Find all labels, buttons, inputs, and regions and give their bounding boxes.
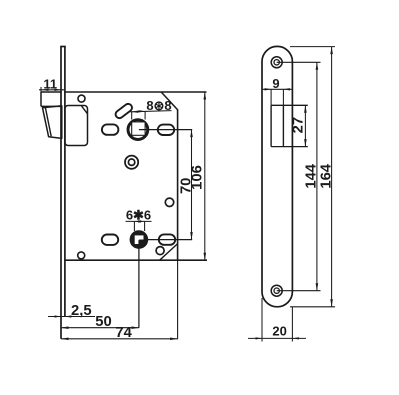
dim 20 ext lines [261,298,263,342]
latch bevel outline [43,106,62,139]
dim 8*8 extension lines [131,111,133,119]
bottom screw hole inner [274,288,279,293]
latch head left edge [40,92,42,106]
dim 20 arrows [256,337,263,339]
dim 8*8 arrows [132,111,139,113]
cylinder hole donut outer [125,156,138,169]
latch body rounded rect [65,106,88,146]
latch head collar line [41,105,61,107]
dim 50 arrows [61,326,69,329]
dim 27 line [304,105,306,146]
svg-text:164: 164 [318,163,334,188]
dim 6*6 extension lines [133,221,135,231]
svg-text:9: 9 [272,76,279,91]
dim 144 arrows [316,62,319,70]
screw hole circle bottom-right [156,247,164,255]
lock case right edge extension to 74 dim [177,260,179,339]
dim 20 line [248,337,306,339]
lower follower square hole [135,235,144,244]
dim 70 arrows [190,130,193,138]
top screw hole outer [271,57,282,68]
lower follower square notch [138,240,143,245]
bottom screw hole outer [271,285,282,296]
faceplate left edge line [60,47,62,339]
screw hole circle top-left [78,95,85,102]
top screw hole inner [274,60,279,65]
dim 164 arrows [330,47,333,55]
svg-text:8⊛8: 8⊛8 [146,98,171,113]
dim 9 line [262,88,292,90]
upper follower square hole [132,122,145,135]
dim 6*6 line [126,220,152,222]
screw hole circle bottom-left [78,252,85,259]
svg-text:106: 106 [190,165,206,190]
dim 106 line [204,92,206,260]
lock case right edge [177,109,179,260]
dim 8*8 line [131,111,172,112]
svg-text:144: 144 [304,163,320,188]
dim 9 ext lines [270,89,272,105]
upper spindle follower ring [128,120,148,140]
svg-text:20: 20 [272,324,286,339]
latch opening left edge [270,105,272,146]
bottom-right diagonal line [160,244,178,260]
upper-left oval slot [102,124,119,134]
latch body corner chamfer line [82,106,88,114]
dim 106 arrows [204,92,207,100]
faceplate right edge line [64,47,66,317]
dim 144 ext line bottom [277,290,321,292]
dim 11 left tick [40,87,42,92]
small circle mid-right [165,198,173,206]
lock case top-right chamfer [161,92,177,110]
dim 11 line [39,89,64,91]
slanted slot (keyhole pill) [114,102,133,119]
dim 9 arrows [265,88,272,90]
latch opening right edge [282,105,284,146]
center line from upper follower [139,129,192,131]
svg-text:27: 27 [291,117,307,133]
dim 164 ext line bottom [290,306,335,308]
dim 74 arrows [61,338,69,341]
lower-right oval slot [159,234,175,244]
latch opening bottom edge + ext [271,146,308,148]
strike plate outline [262,46,292,306]
latch bevel inner line [45,108,51,137]
dim 164 ext line top [290,46,335,48]
latch head top edge [41,91,61,93]
faceplate top cap [60,46,66,48]
cylinder hole donut inner [128,159,134,165]
dim 50 line [61,327,139,329]
lower-left oval slot [102,235,118,245]
dim 6*6 arrows [134,220,141,222]
latch opening top edge + ext [271,104,308,106]
center line down from lower follower [138,248,140,327]
dim 164 line [331,47,333,307]
dim 27 arrows [304,105,307,113]
dim 74 line [61,338,178,340]
dim 144 line [316,62,318,290]
dim 2,5 line [48,316,95,318]
dim 70 line [191,130,193,240]
dim 2,5 arrows [55,315,62,317]
upper-right oval slot [158,125,174,135]
lock case bottom edge + extension line [65,259,207,261]
center line right from lower follower [144,239,193,241]
lower spindle follower disc [130,231,148,249]
dim 11 arrows [42,89,49,91]
lock case top edge + extension line [65,91,207,93]
dim 144 ext line top [277,61,321,63]
